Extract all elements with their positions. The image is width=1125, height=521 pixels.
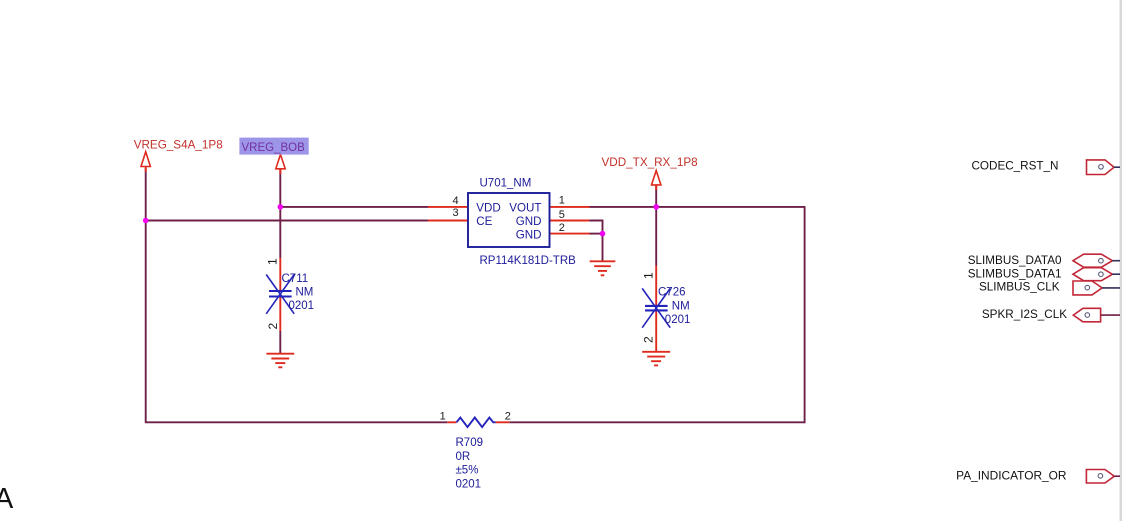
svg-text:±5%: ±5% bbox=[456, 465, 479, 477]
svg-text:2: 2 bbox=[559, 222, 565, 234]
svg-text:R709: R709 bbox=[456, 437, 484, 449]
svg-text:PA_INDICATOR_OR: PA_INDICATOR_OR bbox=[956, 468, 1067, 482]
svg-text:RP114K181D-TRB: RP114K181D-TRB bbox=[480, 255, 577, 267]
svg-text:C726: C726 bbox=[658, 287, 686, 299]
svg-text:VDD_TX_RX_1P8: VDD_TX_RX_1P8 bbox=[602, 156, 698, 169]
svg-text:5: 5 bbox=[559, 209, 565, 221]
svg-text:1: 1 bbox=[642, 272, 656, 279]
svg-text:SLIMBUS_DATA1: SLIMBUS_DATA1 bbox=[968, 267, 1062, 280]
svg-text:CODEC_RST_N: CODEC_RST_N bbox=[971, 159, 1058, 172]
svg-text:A: A bbox=[0, 483, 13, 515]
svg-text:SPKR_I2S_CLK: SPKR_I2S_CLK bbox=[982, 308, 1067, 321]
svg-text:NM: NM bbox=[296, 287, 314, 299]
svg-text:0201: 0201 bbox=[456, 478, 482, 490]
svg-text:GND: GND bbox=[516, 228, 542, 241]
svg-text:1: 1 bbox=[266, 258, 280, 265]
svg-text:SLIMBUS_CLK: SLIMBUS_CLK bbox=[979, 280, 1060, 293]
svg-text:SLIMBUS_DATA0: SLIMBUS_DATA0 bbox=[968, 254, 1062, 267]
svg-text:0201: 0201 bbox=[665, 314, 691, 326]
svg-text:GND: GND bbox=[516, 215, 542, 228]
svg-text:2: 2 bbox=[505, 411, 511, 423]
svg-text:0201: 0201 bbox=[289, 300, 315, 312]
svg-text:CE: CE bbox=[476, 215, 492, 228]
svg-text:C711: C711 bbox=[282, 273, 309, 285]
svg-text:4: 4 bbox=[453, 195, 459, 207]
svg-text:U701_NM: U701_NM bbox=[480, 178, 532, 190]
svg-text:0R: 0R bbox=[456, 451, 471, 463]
svg-text:VDD: VDD bbox=[476, 202, 500, 215]
svg-text:VREG_BOB: VREG_BOB bbox=[242, 142, 306, 154]
svg-text:2: 2 bbox=[642, 336, 656, 343]
svg-text:VREG_S4A_1P8: VREG_S4A_1P8 bbox=[134, 138, 223, 151]
svg-text:VOUT: VOUT bbox=[509, 202, 541, 215]
svg-text:1: 1 bbox=[440, 411, 446, 423]
svg-text:2: 2 bbox=[266, 323, 280, 330]
svg-text:1: 1 bbox=[559, 194, 565, 206]
svg-text:3: 3 bbox=[453, 207, 459, 219]
svg-text:NM: NM bbox=[672, 300, 690, 312]
